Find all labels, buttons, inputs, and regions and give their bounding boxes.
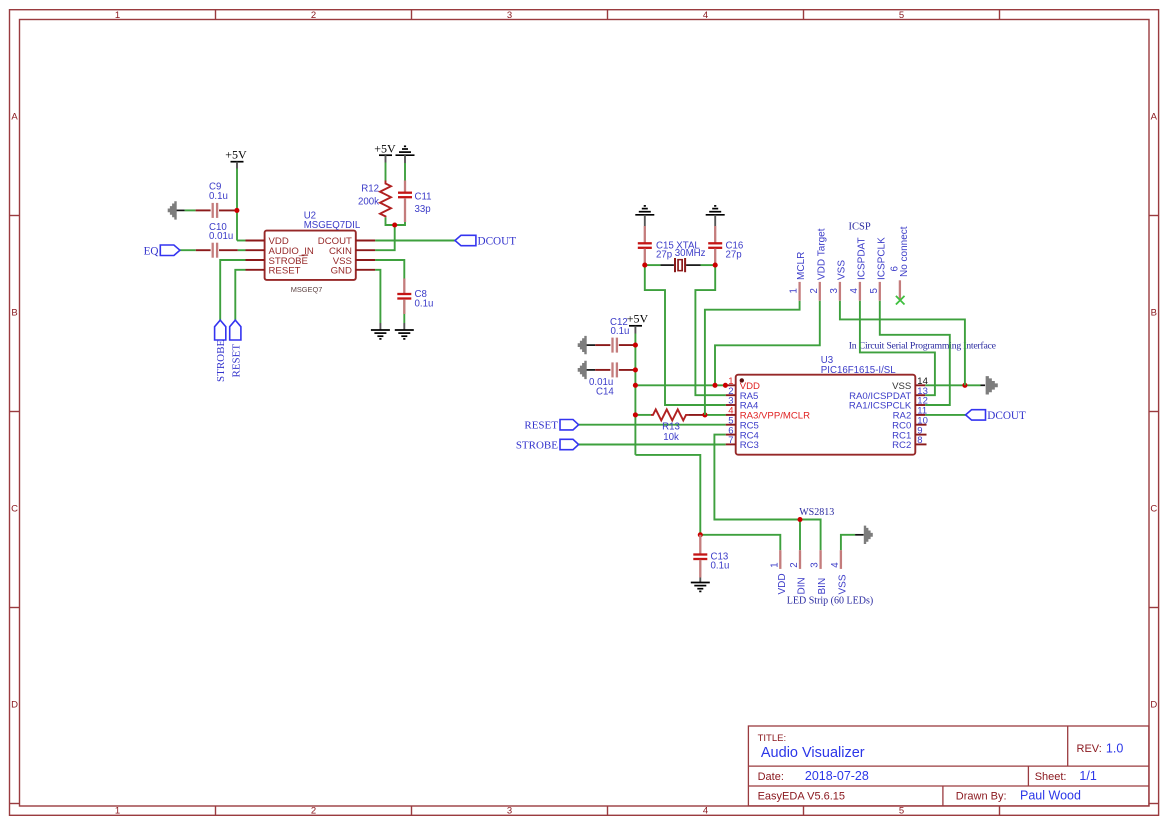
svg-text:3: 3 bbox=[829, 288, 840, 293]
svg-text:B: B bbox=[11, 308, 17, 319]
svg-text:B: B bbox=[1151, 308, 1157, 319]
svg-text:10k: 10k bbox=[663, 432, 679, 443]
svg-text:R12: R12 bbox=[361, 184, 379, 195]
svg-text:Date:: Date: bbox=[758, 771, 784, 783]
svg-text:ICSPDAT: ICSPDAT bbox=[857, 237, 868, 280]
svg-text:2: 2 bbox=[809, 288, 820, 293]
svg-text:Paul Wood: Paul Wood bbox=[1020, 789, 1081, 803]
svg-text:RC2: RC2 bbox=[892, 440, 911, 451]
svg-text:BIN: BIN bbox=[817, 578, 828, 595]
svg-text:VDD: VDD bbox=[777, 573, 788, 594]
svg-text:ICSP: ICSP bbox=[849, 222, 871, 233]
svg-text:27p: 27p bbox=[726, 250, 742, 261]
svg-text:RESET: RESET bbox=[230, 344, 242, 378]
svg-text:2: 2 bbox=[789, 562, 800, 567]
svg-text:1: 1 bbox=[115, 806, 120, 817]
svg-text:5: 5 bbox=[899, 10, 904, 21]
svg-text:EasyEDA V5.6.15: EasyEDA V5.6.15 bbox=[758, 791, 845, 803]
svg-text:VSS: VSS bbox=[837, 574, 848, 594]
svg-text:30MHz: 30MHz bbox=[675, 248, 706, 259]
svg-text:C14: C14 bbox=[596, 386, 614, 397]
svg-text:4: 4 bbox=[849, 288, 860, 294]
svg-text:0.1u: 0.1u bbox=[611, 326, 630, 337]
svg-text:0.1u: 0.1u bbox=[209, 191, 228, 202]
svg-text:No connect: No connect bbox=[899, 226, 910, 277]
svg-text:DIN: DIN bbox=[797, 577, 808, 594]
svg-text:Audio Visualizer: Audio Visualizer bbox=[761, 745, 865, 761]
svg-text:REV:: REV: bbox=[1077, 743, 1102, 755]
svg-text:1: 1 bbox=[789, 288, 800, 293]
svg-text:5: 5 bbox=[899, 806, 904, 817]
svg-text:1: 1 bbox=[115, 10, 120, 21]
svg-text:STROBE: STROBE bbox=[516, 440, 558, 452]
svg-text:+5V: +5V bbox=[225, 148, 247, 162]
svg-text:8: 8 bbox=[917, 435, 922, 446]
svg-text:2: 2 bbox=[311, 10, 316, 21]
svg-text:C11: C11 bbox=[415, 192, 432, 203]
svg-text:27p: 27p bbox=[656, 250, 672, 261]
svg-text:VSS: VSS bbox=[837, 260, 848, 280]
svg-text:0.01u: 0.01u bbox=[209, 231, 233, 242]
svg-text:0.1u: 0.1u bbox=[711, 561, 730, 572]
svg-text:3: 3 bbox=[810, 562, 821, 567]
svg-text:TITLE:: TITLE: bbox=[758, 733, 787, 744]
svg-text:VDD Target: VDD Target bbox=[816, 228, 827, 280]
svg-text:1.0: 1.0 bbox=[1106, 742, 1123, 756]
svg-text:2: 2 bbox=[311, 806, 316, 817]
svg-text:R13: R13 bbox=[662, 421, 680, 432]
svg-text:1/1: 1/1 bbox=[1079, 769, 1096, 783]
svg-text:RC3: RC3 bbox=[740, 440, 759, 451]
svg-text:MSGEQ7DIL: MSGEQ7DIL bbox=[304, 220, 361, 231]
svg-text:A: A bbox=[11, 112, 18, 123]
svg-text:C: C bbox=[1150, 504, 1157, 515]
svg-text:1: 1 bbox=[769, 562, 780, 567]
svg-text:5: 5 bbox=[869, 288, 880, 293]
svg-text:In Circuit Serial Programming: In Circuit Serial Programming Interface bbox=[849, 340, 997, 351]
svg-text:Sheet:: Sheet: bbox=[1035, 771, 1067, 783]
svg-text:LED Strip (60 LEDs): LED Strip (60 LEDs) bbox=[787, 596, 873, 607]
svg-text:4: 4 bbox=[830, 562, 841, 568]
svg-text:7: 7 bbox=[728, 435, 733, 446]
svg-text:A: A bbox=[1151, 112, 1158, 123]
svg-text:C: C bbox=[11, 504, 18, 515]
svg-text:D: D bbox=[11, 700, 18, 711]
svg-text:PIC16F1615-I/SL: PIC16F1615-I/SL bbox=[821, 365, 896, 376]
svg-text:DCOUT: DCOUT bbox=[987, 410, 1026, 422]
svg-text:WS2813: WS2813 bbox=[799, 507, 834, 518]
svg-text:DCOUT: DCOUT bbox=[478, 236, 517, 248]
svg-text:+5V: +5V bbox=[374, 141, 396, 155]
svg-text:200k: 200k bbox=[358, 197, 379, 208]
svg-text:GND: GND bbox=[331, 266, 352, 277]
svg-text:MCLR: MCLR bbox=[796, 252, 807, 280]
svg-text:33p: 33p bbox=[415, 204, 431, 215]
svg-text:MSGEQ7: MSGEQ7 bbox=[291, 285, 323, 294]
svg-text:Drawn By:: Drawn By: bbox=[956, 791, 1007, 803]
svg-text:ICSPCLK: ICSPCLK bbox=[876, 237, 887, 280]
svg-text:0.1u: 0.1u bbox=[415, 299, 434, 310]
svg-text:RESET: RESET bbox=[269, 266, 301, 277]
svg-text:D: D bbox=[1150, 700, 1157, 711]
svg-text:2018-07-28: 2018-07-28 bbox=[805, 769, 869, 783]
svg-text:4: 4 bbox=[703, 10, 708, 21]
svg-text:3: 3 bbox=[507, 10, 512, 21]
svg-text:3: 3 bbox=[507, 806, 512, 817]
svg-text:EQ: EQ bbox=[144, 245, 159, 257]
svg-text:+5V: +5V bbox=[627, 312, 649, 326]
svg-text:4: 4 bbox=[703, 806, 708, 817]
svg-text:RESET: RESET bbox=[524, 420, 558, 432]
svg-text:STROBE: STROBE bbox=[215, 340, 227, 382]
